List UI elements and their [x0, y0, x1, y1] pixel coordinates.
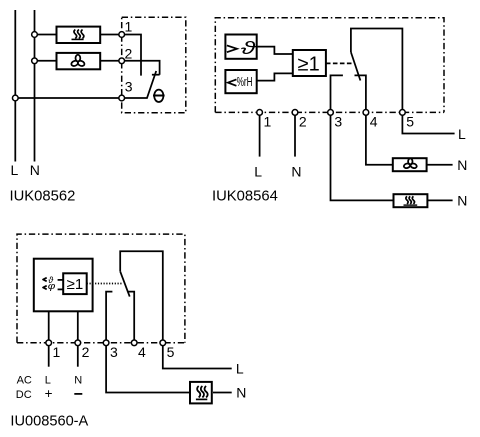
svg-text:ϑ: ϑ	[241, 38, 257, 58]
svg-text:L: L	[45, 374, 51, 386]
svg-text:N: N	[291, 164, 301, 180]
svg-text:L: L	[11, 162, 19, 178]
svg-text:IUK08562: IUK08562	[10, 189, 76, 205]
svg-text:3: 3	[125, 79, 133, 95]
svg-text:4: 4	[138, 344, 146, 360]
svg-text:1: 1	[264, 114, 272, 130]
svg-text:2: 2	[125, 45, 133, 61]
svg-text:IU008560-A: IU008560-A	[10, 413, 88, 429]
svg-text:L: L	[254, 164, 262, 180]
svg-text:IUK08564: IUK08564	[212, 188, 278, 204]
svg-text:1: 1	[125, 19, 133, 35]
svg-text:1: 1	[53, 344, 61, 360]
svg-text:+: +	[45, 386, 53, 401]
svg-text:≥1: ≥1	[67, 276, 84, 293]
svg-text:2: 2	[299, 114, 307, 130]
svg-text:3: 3	[110, 344, 118, 360]
svg-text:N: N	[236, 385, 246, 401]
svg-text:L: L	[458, 126, 466, 142]
svg-text:N: N	[30, 162, 40, 178]
svg-text:φ: φ	[48, 282, 56, 291]
svg-text:N: N	[74, 374, 82, 386]
svg-text:AC: AC	[17, 374, 32, 386]
svg-text:2: 2	[82, 344, 90, 360]
svg-text:N: N	[457, 193, 467, 209]
svg-text:%rH: %rH	[237, 75, 253, 89]
svg-text:5: 5	[167, 344, 175, 360]
svg-text:4: 4	[370, 114, 378, 130]
svg-text:≥1: ≥1	[298, 54, 320, 76]
svg-text:5: 5	[406, 114, 414, 130]
svg-text:N: N	[457, 157, 467, 173]
svg-text:L: L	[236, 361, 244, 377]
svg-text:3: 3	[334, 114, 342, 130]
svg-text:DC: DC	[16, 389, 32, 401]
